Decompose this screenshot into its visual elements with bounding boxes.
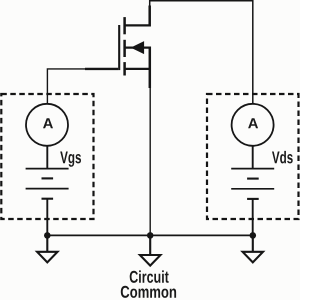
battery Vgs plate short 2 — [42, 198, 54, 200]
battery Vgs plate long 1 — [26, 168, 69, 170]
battery Vgs plate short 1 — [42, 177, 54, 179]
wire: left ammeter to battery — [46, 146, 48, 169]
mosfet channel segment top — [123, 17, 126, 34]
wire: common bus — [47, 234, 253, 236]
dashed enclosure box Vgs supply — [1, 94, 93, 219]
battery Vds plate short 2 — [247, 198, 259, 200]
battery Vgs — [26, 169, 69, 199]
ammeter A (left) — [26, 104, 68, 146]
wire: gate lead to left ammeter — [47, 69, 90, 104]
wire: source down to common bus — [149, 87, 151, 235]
mosfet source line — [125, 68, 150, 70]
wire: Vds battery down to common bus — [252, 199, 254, 236]
mosfet body arrow — [131, 41, 144, 54]
battery Vgs plate long 2 — [26, 188, 69, 190]
mosfet Q1 — [85, 6, 151, 89]
dashed enclosure box Vds supply — [207, 94, 299, 219]
mosfet channel segment bottom — [123, 62, 126, 75]
junction dot right — [250, 232, 257, 239]
ground middle — [140, 235, 161, 265]
mosfet source-body vertical and source lead — [149, 47, 152, 89]
mosfet drain lead — [148, 6, 151, 27]
wire: top rail drain to right ammeter — [150, 1, 253, 104]
ground left — [37, 235, 57, 262]
mosfet gate bar — [118, 25, 120, 70]
wire: Vgs battery down to common bus — [46, 199, 48, 236]
mosfet drain line — [125, 24, 150, 26]
junction dot middle — [147, 232, 154, 239]
mosfet channel segment middle — [123, 40, 126, 57]
label Vgs — [60, 152, 81, 167]
junction dot left — [44, 232, 51, 239]
battery Vds plate long 1 — [231, 168, 274, 170]
battery Vds — [231, 169, 274, 199]
label Vds — [272, 151, 293, 164]
mosfet body line — [125, 46, 151, 48]
wire: right ammeter to battery — [252, 146, 254, 169]
ammeter A (right) — [232, 104, 274, 146]
mosfet gate lead — [85, 68, 118, 70]
ground right — [243, 235, 263, 262]
label Circuit Common — [121, 270, 176, 298]
battery Vds plate long 2 — [231, 188, 274, 190]
battery Vds plate short 1 — [247, 178, 259, 180]
